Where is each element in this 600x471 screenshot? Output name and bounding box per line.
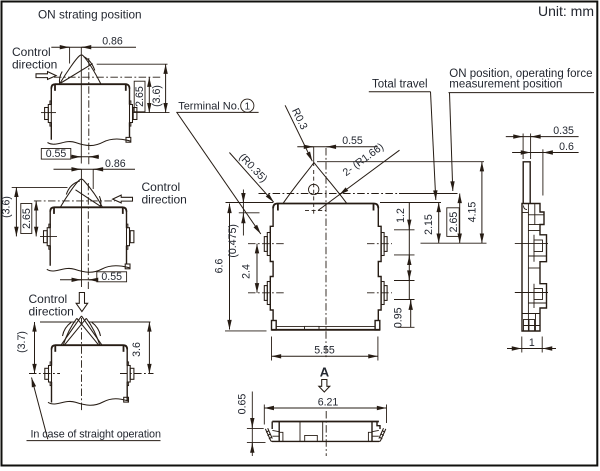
view2 right terminal — [127, 228, 134, 246]
side body inner lines — [522, 204, 547, 332]
main body top extension right — [380, 202, 441, 204]
main dim 4.15 — [466, 162, 482, 244]
svg-text:2.65: 2.65 — [448, 212, 460, 233]
main vertical centerline — [325, 148, 327, 358]
svg-text:ON strating position: ON strating position — [38, 8, 142, 22]
main dim 2.4 — [241, 244, 258, 293]
terminal No.1 leader — [177, 112, 261, 234]
side dim 1 — [507, 337, 556, 353]
svg-text:4.15: 4.15 — [466, 202, 478, 223]
svg-text:1: 1 — [245, 101, 250, 112]
main body right contour — [378, 208, 381, 320]
svg-text:0.6: 0.6 — [559, 141, 574, 153]
view3 caption underline — [27, 440, 161, 442]
view3 left terminal — [45, 366, 52, 383]
svg-text:measurement position: measurement position — [449, 79, 562, 91]
main apex level extension — [317, 161, 484, 163]
view1 dim 0.86 — [51, 35, 136, 47]
svg-text:(3.6): (3.6) — [1, 196, 13, 218]
view1 body sides — [51, 88, 129, 140]
main 6.6 bottom extension line — [225, 330, 267, 332]
view1 body step notches — [50, 101, 131, 126]
main apex extension line — [313, 147, 315, 166]
main dim (0.475) — [227, 190, 243, 258]
ON position leader — [450, 93, 453, 191]
view A open arrow down — [319, 380, 330, 393]
viewA left foot hatched — [265, 428, 272, 441]
main right step extension lines — [394, 230, 415, 300]
view1 terminal centerline left — [41, 112, 56, 114]
view1 body centerline vertical — [88, 58, 90, 166]
main dim 5.55 — [272, 337, 378, 361]
view2 apex solid line — [81, 181, 83, 287]
viewA centerline — [325, 411, 327, 456]
main apex hidden line below — [313, 170, 315, 215]
view2 dim (3.6) — [1, 187, 17, 236]
view2 extension apex line — [80, 169, 82, 181]
svg-text:2.4: 2.4 — [241, 264, 253, 279]
view1 ON position line right — [134, 112, 170, 114]
svg-text:Terminal No.: Terminal No. — [178, 100, 240, 112]
svg-text:direction: direction — [142, 193, 187, 207]
svg-text:6.21: 6.21 — [318, 397, 339, 409]
main dim 2.65 boxed — [447, 194, 460, 244]
view3 top extension line — [40, 321, 151, 323]
side dim 0.35 — [506, 125, 579, 137]
view3 body centerline vertical — [81, 318, 83, 412]
view1 control direction open arrow — [36, 72, 56, 80]
main dim 0.55 — [297, 135, 378, 147]
viewA right terminal block — [368, 430, 378, 441]
main bottom center bump — [305, 326, 320, 329]
svg-text:direction: direction — [12, 58, 57, 72]
view1 dim 0.55 boxed — [41, 148, 99, 160]
Total travel leader — [431, 92, 436, 200]
svg-text:6.6: 6.6 — [214, 259, 226, 274]
view2 bottom right foot — [125, 264, 130, 269]
main right terminal2 centerline — [367, 292, 392, 294]
Total travel label — [369, 78, 431, 91]
view3 leader line — [32, 378, 48, 440]
svg-text:(3.6): (3.6) — [151, 85, 163, 107]
viewA body outline — [272, 422, 380, 442]
view2 dim 0.86 — [54, 158, 136, 170]
side stem extension lines — [523, 134, 543, 196]
svg-text:In case of straight operation: In case of straight operation — [31, 428, 161, 440]
main ON measurement extension line — [421, 242, 487, 244]
view3 right terminal — [127, 366, 134, 383]
viewA inner verticals — [300, 422, 323, 443]
main horizontal centerline level — [259, 193, 458, 195]
svg-text:2.15: 2.15 — [423, 214, 435, 235]
view2 dim 0.55 boxed — [60, 271, 127, 283]
view2 body centerline vertical — [87, 183, 89, 289]
main body bottom inner line — [276, 325, 375, 327]
svg-text:0.55: 0.55 — [342, 135, 363, 147]
2-(R1.66) label — [318, 141, 400, 211]
main left terminal 2 — [264, 282, 270, 305]
svg-text:A: A — [320, 365, 330, 380]
main body left contour — [270, 208, 273, 320]
side dim 0.6 — [512, 141, 579, 153]
viewA dim 0.65 — [237, 392, 266, 457]
svg-text:(R0.35): (R0.35) — [236, 151, 269, 185]
view2 terminal centerline marks — [40, 235, 57, 237]
main dim 6.6 — [214, 204, 230, 330]
view3 body outline — [52, 345, 128, 352]
R0.3 label — [285, 105, 312, 161]
main right terminal1 centerline — [367, 243, 392, 245]
view2 left terminal — [44, 228, 51, 246]
view2 horizontal extension for (3.6) — [12, 186, 68, 188]
main terminal1 centerline — [248, 243, 284, 245]
view1 right terminal — [130, 105, 137, 123]
svg-text:0.95: 0.95 — [393, 307, 405, 328]
view3 actuator triangles cluster — [61, 316, 102, 345]
svg-text:0.55: 0.55 — [101, 271, 122, 283]
svg-text:0.65: 0.65 — [237, 394, 249, 415]
main right terminal 2 — [381, 282, 387, 305]
side body outline — [522, 204, 547, 332]
main dim 0.95 — [393, 300, 415, 329]
view2 dim 2.65 boxed — [21, 201, 36, 237]
viewA dim 6.21 — [264, 397, 386, 425]
view3 terminal centerline right — [120, 373, 154, 375]
svg-text:(0.475): (0.475) — [227, 224, 239, 258]
main body top extension left — [226, 202, 274, 204]
view1 horizontal extension for (3.6) — [97, 63, 168, 65]
svg-text:Total travel: Total travel — [372, 78, 428, 90]
view1 actuator triangle — [59, 55, 101, 84]
main (0.475) lower reference line — [239, 212, 260, 214]
main dim 1.2 — [395, 203, 409, 300]
svg-text:0.55: 0.55 — [46, 148, 67, 160]
svg-text:1: 1 — [529, 337, 535, 349]
view1 extension line left — [69, 47, 71, 63]
svg-text:direction: direction — [29, 305, 74, 319]
view1 left terminal — [45, 105, 52, 123]
svg-text:(3.7): (3.7) — [16, 331, 28, 353]
main body bottom feet — [272, 321, 380, 330]
view1 actuator apex line — [80, 47, 82, 163]
ON position label — [449, 68, 595, 92]
view2 control direction open arrow — [113, 195, 133, 203]
svg-text:2.65: 2.65 — [21, 208, 33, 229]
view3 body step notches — [50, 362, 129, 386]
main body outline top — [273, 204, 378, 211]
side terminal1 centerline — [515, 243, 548, 245]
view3 control direction open arrow down — [76, 293, 88, 312]
side terminal2 centerline — [515, 292, 548, 294]
viewA left terminal block — [272, 430, 283, 441]
svg-text:3.6: 3.6 — [131, 342, 143, 357]
viewA body top line — [272, 421, 379, 423]
view2 body sides — [50, 211, 126, 266]
svg-text:0.35: 0.35 — [553, 125, 574, 137]
main actuator triangle — [283, 163, 347, 204]
view3 body sides — [52, 349, 128, 403]
view3 dim (3.7) — [16, 322, 35, 374]
svg-text:2.65: 2.65 — [134, 86, 146, 107]
view1 dim 2.65 boxed — [134, 77, 149, 112]
main hidden base dashed — [305, 210, 326, 212]
view1 horizontal centerline — [54, 76, 161, 78]
view2 body outline — [50, 207, 126, 214]
view3 break wavy line — [48, 399, 129, 406]
view3 dim 3.6 — [131, 322, 149, 374]
main right terminal 1 — [381, 233, 387, 256]
view1 dim (3.6) — [151, 64, 166, 112]
main actuator circle — [309, 184, 319, 194]
(R0.35) label — [229, 151, 273, 202]
view3 bottom right foot — [124, 397, 129, 402]
view2 break wavy line — [47, 266, 130, 273]
view1 body outline — [51, 84, 129, 91]
main terminal2 centerline — [248, 292, 284, 294]
view1 break wavy line — [48, 139, 132, 146]
view3 terminal centerline left — [29, 373, 60, 375]
view2 extension right line — [92, 169, 94, 189]
main dim 2.15 — [423, 203, 439, 244]
main body bottom outer line — [271, 329, 380, 331]
viewA right foot hatched — [379, 428, 386, 441]
svg-text:0.86: 0.86 — [102, 35, 123, 47]
svg-text:5.55: 5.55 — [314, 344, 335, 356]
side actuator stem — [523, 162, 530, 203]
view2 body step notches — [49, 224, 128, 249]
view2 horizontal centerline — [34, 200, 115, 202]
view1 bottom right foot — [126, 137, 131, 142]
viewA center bump — [305, 435, 318, 442]
view2 actuator triangle — [60, 179, 102, 207]
terminal No.1 label — [176, 99, 258, 112]
svg-text:1.2: 1.2 — [395, 208, 407, 223]
svg-text:Unit: mm: Unit: mm — [538, 3, 594, 19]
svg-text:0.86: 0.86 — [105, 158, 126, 170]
main left terminal 1 — [264, 233, 270, 256]
